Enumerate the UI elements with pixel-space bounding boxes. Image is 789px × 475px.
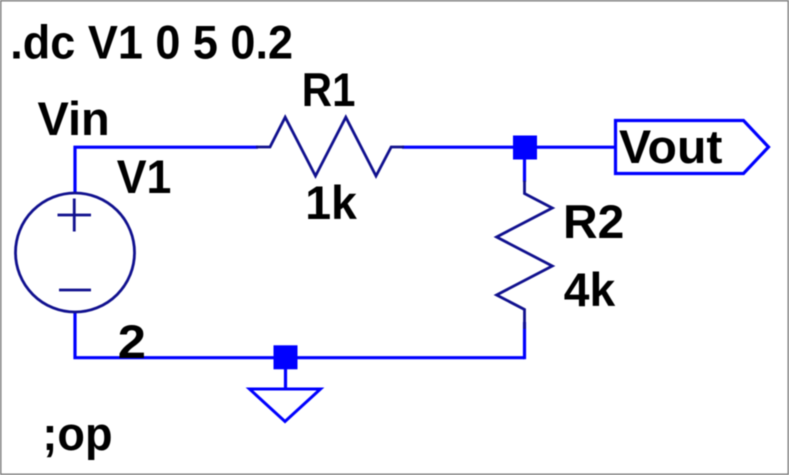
resistor R2 (zigzag) <box>497 181 553 330</box>
V1 plus sign <box>58 199 92 232</box>
V1 minus sign <box>59 289 91 292</box>
svg-text:R2: R2 <box>563 195 624 248</box>
wire: ground stub <box>284 369 287 389</box>
wire: R1 right lead to Vout flag through junction <box>402 146 616 149</box>
node junction at Vout (blue square) <box>513 136 537 160</box>
wire: bottom net from V1 minus to R2 bottom <box>75 311 525 358</box>
svg-text:;op: ;op <box>42 407 112 460</box>
svg-text:V1: V1 <box>117 150 172 203</box>
svg-text:1k: 1k <box>305 176 358 229</box>
svg-text:R1: R1 <box>302 63 356 116</box>
ground <box>250 389 321 422</box>
wire: R2 bottom to bottom net <box>523 322 526 359</box>
resistor R1 (zigzag) <box>256 117 404 176</box>
svg-text:Vin: Vin <box>38 92 110 145</box>
wire: junction down to R2 top <box>523 159 526 182</box>
svg-text:Vout: Vout <box>619 120 723 173</box>
Vout flag <box>616 121 769 174</box>
svg-text:4k: 4k <box>564 263 616 316</box>
voltage source V1 (circle) <box>16 193 135 312</box>
node junction at ground (blue square) <box>274 345 298 369</box>
wire: top net Vin to R1 with vertical drop to V1 plus <box>75 147 258 194</box>
svg-text:2: 2 <box>118 315 146 368</box>
svg-text:.dc V1 0 5 0.2: .dc V1 0 5 0.2 <box>10 16 293 69</box>
